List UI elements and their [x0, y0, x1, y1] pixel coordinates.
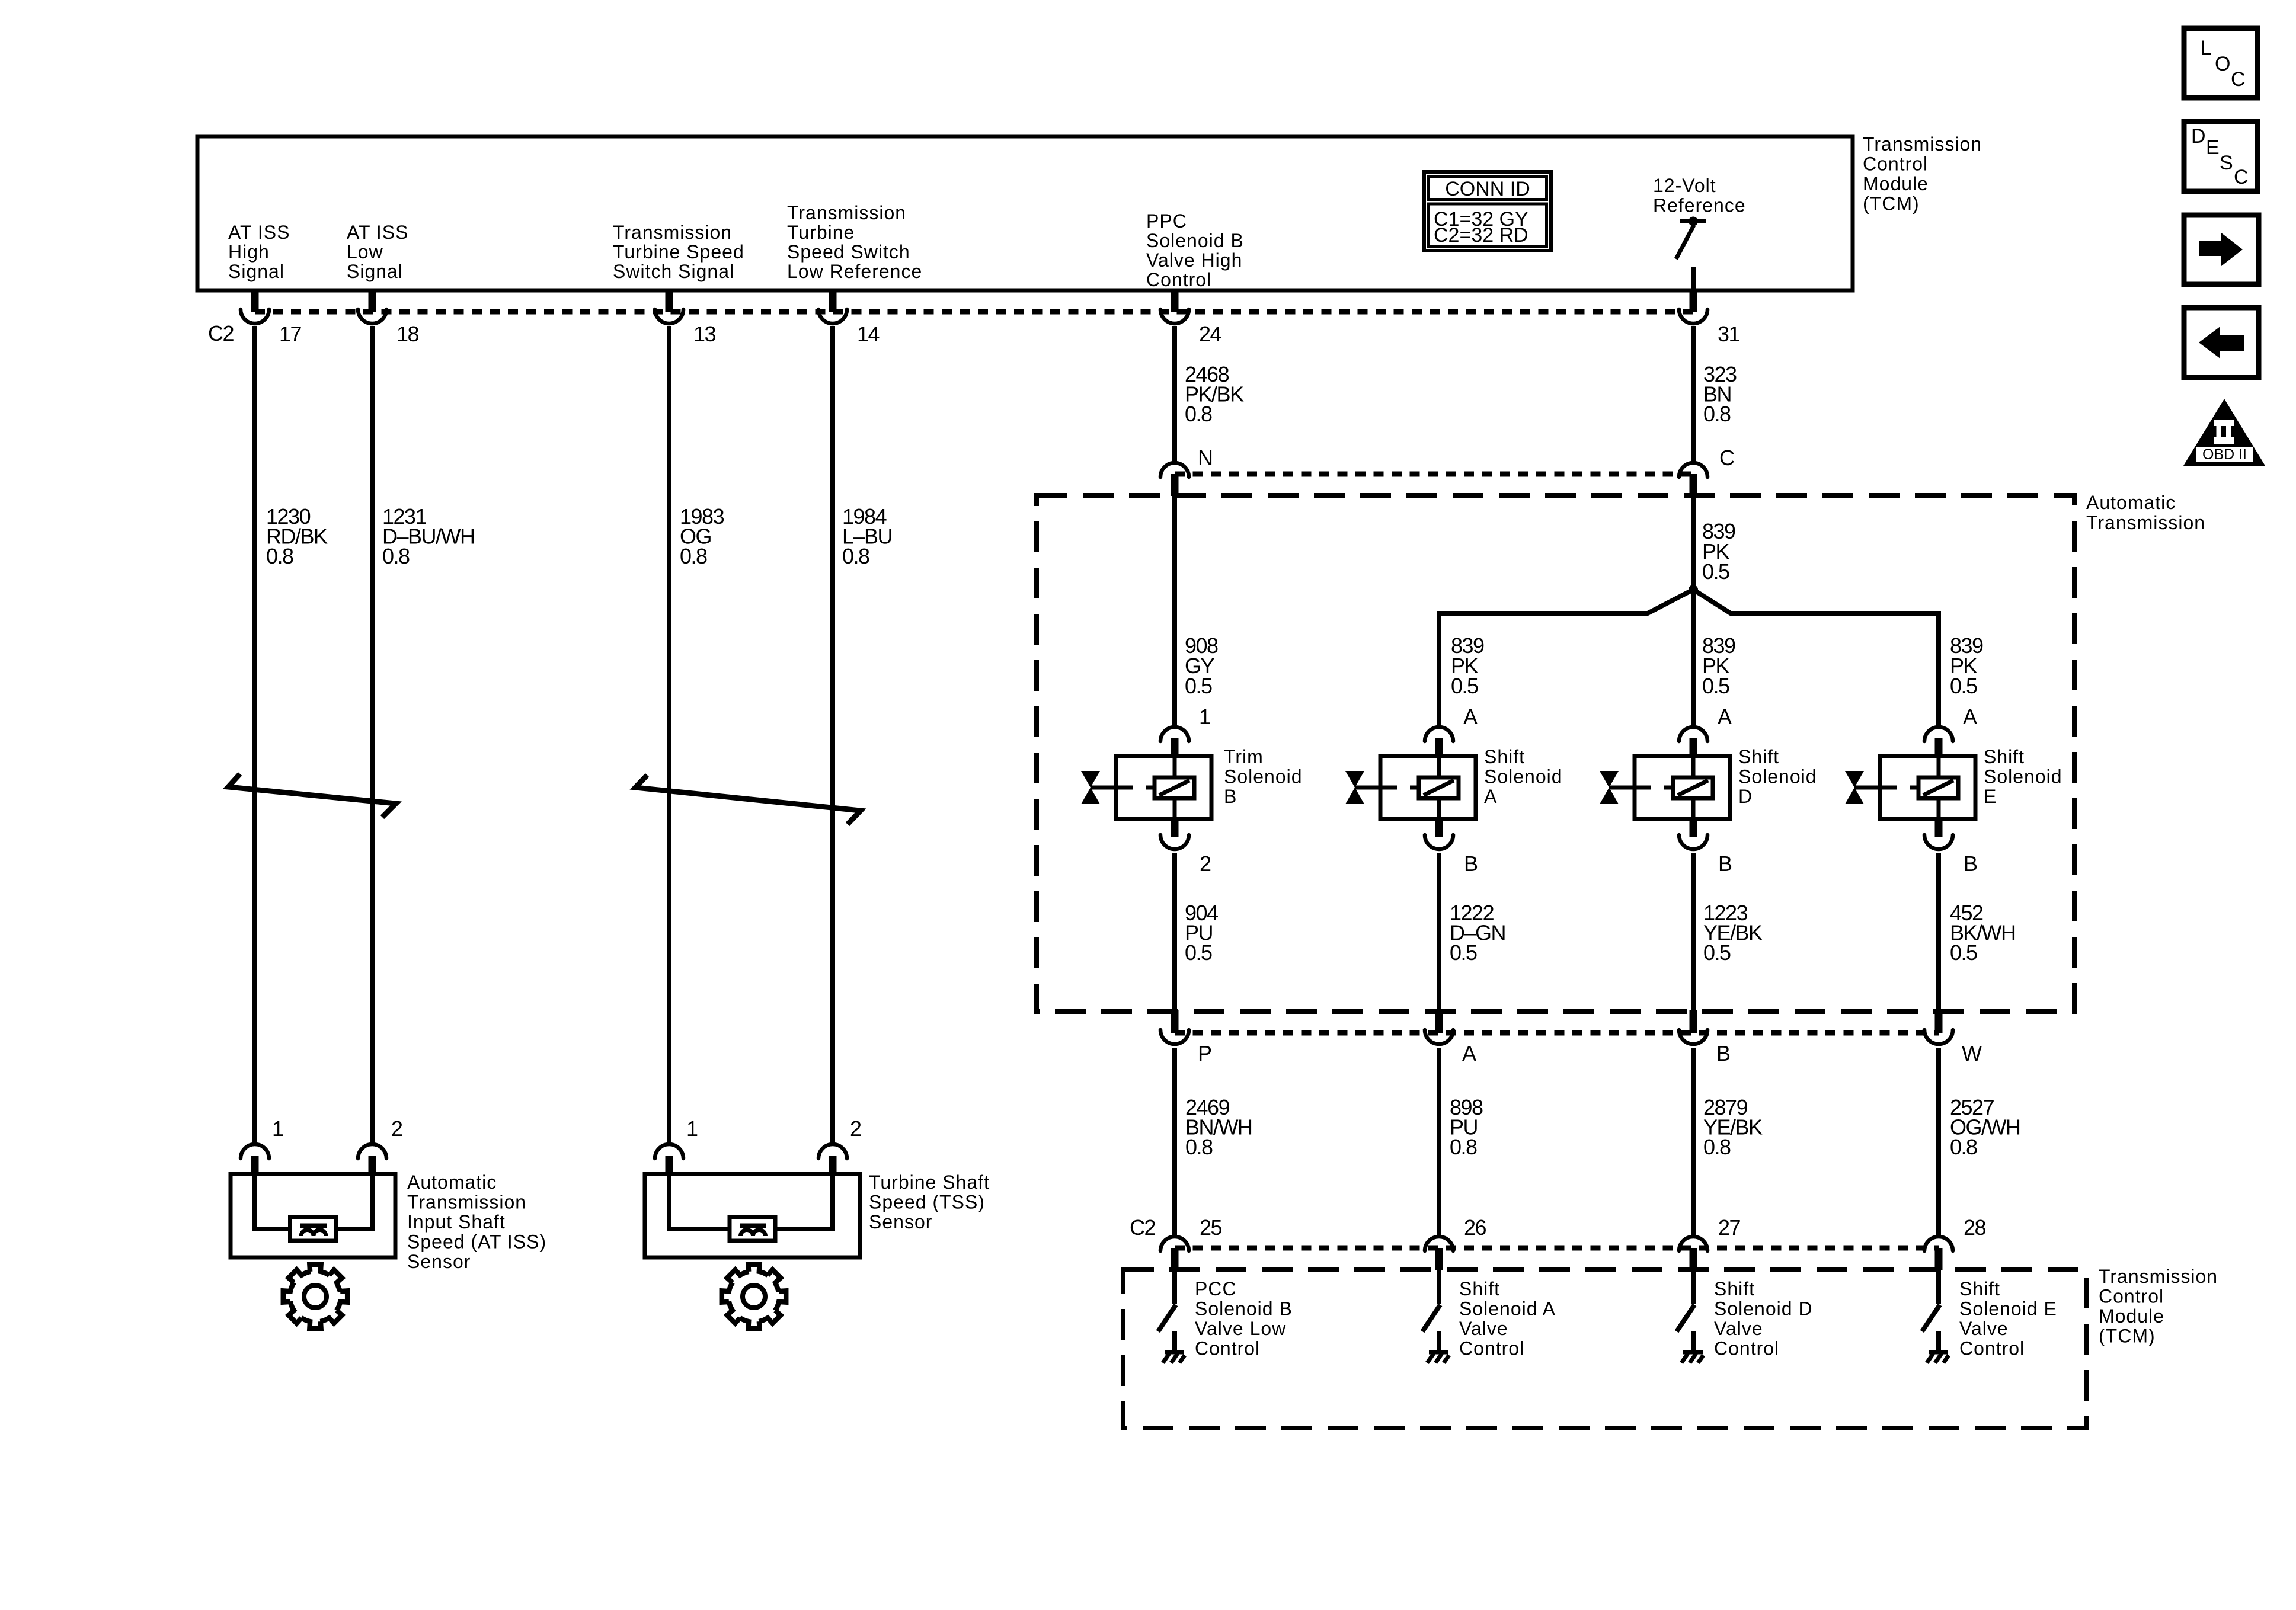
- pin label B A: [1464, 852, 1478, 876]
- pin label P: [1198, 1041, 1211, 1065]
- connector pin 1 solenoid top B: [1160, 727, 1189, 756]
- svg-text:0.5: 0.5: [1702, 559, 1729, 584]
- pin label B D: [1718, 852, 1732, 876]
- pin label A E: [1963, 705, 1977, 729]
- svg-text:Control: Control: [1863, 153, 1928, 175]
- svg-text:C2: C2: [1130, 1215, 1155, 1240]
- connector pin 25 bottom TCM: [1160, 1237, 1189, 1270]
- svg-text:E: E: [2206, 136, 2220, 159]
- ground chassis Solenoid B: [1163, 1331, 1185, 1363]
- connector pin 24 TCM C2: [1160, 290, 1189, 324]
- solenoid feeler lines D: [1609, 786, 1673, 790]
- label Transmission Control Module TCM top right: [1863, 133, 1982, 215]
- svg-text:Automatic: Automatic: [2086, 492, 2176, 513]
- svg-text:Control: Control: [1459, 1338, 1524, 1359]
- solenoid wire internal bottom B: [1173, 798, 1177, 819]
- valve symbol hourglass D: [1600, 771, 1619, 804]
- switch lever Solenoid A low-side driver: [1422, 1305, 1440, 1331]
- TCM bottom dashed box: [1123, 1270, 2086, 1428]
- svg-text:0.5: 0.5: [1185, 940, 1212, 965]
- svg-text:Transmission: Transmission: [613, 222, 732, 243]
- label Transmission Control Module TCM bottom right: [2099, 1266, 2218, 1347]
- svg-text:Module: Module: [2099, 1305, 2164, 1327]
- wire 839 branch center: [1691, 590, 1696, 726]
- solenoid coil element A: [1419, 777, 1459, 798]
- icon forward arrow box: [2184, 215, 2259, 284]
- svg-text:Valve High: Valve High: [1146, 249, 1242, 271]
- wire 839 branch right: [1693, 590, 1939, 726]
- svg-text:18: 18: [396, 322, 419, 346]
- wire internal Solenoid E driver: [1936, 1270, 1941, 1304]
- in-line connector N C dashed line: [1175, 472, 1693, 477]
- label C2 top: [208, 321, 234, 345]
- svg-text:L: L: [2201, 37, 2212, 59]
- solenoid body box A: [1380, 756, 1476, 819]
- svg-text:0.8: 0.8: [680, 544, 707, 568]
- svg-text:PPC: PPC: [1146, 210, 1187, 232]
- svg-text:Solenoid: Solenoid: [1484, 766, 1563, 788]
- solenoid wire internal top E: [1937, 756, 1941, 778]
- label Shift Solenoid A Valve Control: [1459, 1278, 1556, 1359]
- CONN ID table: [1424, 172, 1551, 251]
- label wire 839 PK 0.5 branch D: [1702, 633, 1735, 698]
- label Shift Solenoid E Valve Control: [1959, 1278, 2057, 1359]
- wire 1222 segment: [1437, 853, 1441, 1012]
- connector pin A solenoid top A: [1425, 727, 1453, 756]
- svg-text:Valve Low: Valve Low: [1195, 1318, 1286, 1339]
- svg-text:Solenoid B: Solenoid B: [1195, 1298, 1293, 1320]
- label Automatic Transmission: [2086, 492, 2205, 533]
- pin label C: [1719, 446, 1734, 470]
- svg-text:Transmission: Transmission: [1863, 133, 1982, 155]
- svg-text:27: 27: [1718, 1215, 1741, 1240]
- label wire 839 PK 0.5 branch A: [1451, 633, 1484, 698]
- svg-text:(TCM): (TCM): [1863, 193, 1920, 215]
- svg-text:24: 24: [1199, 322, 1221, 346]
- connector pin 2 sensor: [818, 1144, 847, 1174]
- wire 12-volt reference to box edge: [1691, 267, 1696, 290]
- svg-text:Low Reference: Low Reference: [787, 261, 922, 282]
- label wire 1231 D-BU/WH 0.8: [382, 504, 475, 568]
- svg-text:12-Volt: 12-Volt: [1653, 175, 1716, 196]
- solenoid feeler lines A: [1355, 786, 1419, 790]
- pin label B: [1716, 1041, 1730, 1065]
- svg-text:0.5: 0.5: [1450, 940, 1477, 965]
- gear icon AT ISS reluctor: [283, 1265, 347, 1329]
- pin label 31: [1718, 322, 1740, 346]
- wire 1230 segment: [252, 326, 257, 1142]
- pin label 25: [1200, 1215, 1222, 1240]
- label Shift Solenoid D Valve Control: [1714, 1278, 1813, 1359]
- connector pin 2 solenoid bottom B: [1160, 819, 1189, 849]
- pin label 2 sensor: [391, 1116, 402, 1141]
- connector pin 31 TCM C2: [1679, 290, 1707, 324]
- twisted pair symbol AT ISS wires: [228, 774, 396, 817]
- connector line C2 TCM dashed: [255, 309, 1693, 315]
- svg-text:Control: Control: [2099, 1286, 2164, 1307]
- solenoid body box D: [1635, 756, 1730, 819]
- gear icon TSS reluctor: [722, 1265, 786, 1329]
- pin label 28: [1964, 1215, 1986, 1240]
- connector pin 1 sensor: [241, 1144, 269, 1174]
- svg-text:Solenoid A: Solenoid A: [1459, 1298, 1556, 1320]
- svg-text:0.8: 0.8: [842, 544, 869, 568]
- label wire 904 PU 0.5: [1185, 901, 1218, 965]
- label wire 1984 L-BU 0.8: [842, 504, 892, 568]
- svg-text:A: A: [1718, 705, 1732, 729]
- svg-text:Turbine Shaft: Turbine Shaft: [869, 1172, 990, 1193]
- wire 898 segment: [1437, 1048, 1441, 1235]
- svg-text:2: 2: [391, 1116, 402, 1141]
- svg-text:OBD II: OBD II: [2202, 446, 2247, 463]
- TSS sensor pickup coil element: [730, 1217, 775, 1241]
- connector pin 17 TCM C2: [241, 290, 269, 324]
- switch lever Solenoid D low-side driver: [1677, 1305, 1694, 1331]
- label PPC Solenoid B Valve High Control: [1146, 210, 1244, 290]
- pin label 27: [1718, 1215, 1741, 1240]
- svg-text:Valve: Valve: [1959, 1318, 2009, 1339]
- 12-volt reference switch contact bar: [1680, 219, 1706, 223]
- connector pin 1 sensor: [655, 1144, 683, 1174]
- svg-text:AT ISS: AT ISS: [347, 222, 408, 243]
- svg-text:Solenoid: Solenoid: [1224, 766, 1303, 788]
- label PCC Solenoid B Valve Low Control: [1195, 1278, 1293, 1359]
- svg-text:D: D: [2191, 125, 2206, 148]
- svg-text:Solenoid: Solenoid: [1984, 766, 2062, 788]
- svg-text:S: S: [2220, 152, 2233, 174]
- pin label 13: [693, 322, 716, 346]
- svg-text:(TCM): (TCM): [2099, 1326, 2156, 1347]
- pin label 2 B: [1200, 852, 1211, 876]
- wire 1983 segment: [667, 326, 671, 1142]
- connector pin C: [1679, 463, 1707, 496]
- TCM module box: [197, 136, 1853, 290]
- 12-volt reference switch lever: [1676, 225, 1694, 259]
- ground chassis Solenoid E: [1927, 1331, 1949, 1363]
- label wire 2469 BN/WH 0.8: [1185, 1095, 1252, 1159]
- svg-text:C: C: [2234, 166, 2249, 188]
- wire 323 segment: [1691, 326, 1696, 462]
- svg-text:B: B: [1716, 1041, 1730, 1065]
- pin label 17: [279, 322, 302, 346]
- junction dot 839 splice: [1689, 585, 1698, 594]
- svg-text:Transmission: Transmission: [787, 202, 906, 223]
- valve symbol hourglass A: [1345, 771, 1364, 804]
- svg-text:Solenoid B: Solenoid B: [1146, 230, 1244, 251]
- switch lever Solenoid E low-side driver: [1922, 1305, 1940, 1331]
- TSS sensor internal wires: [669, 1174, 833, 1229]
- connector pin B: [1679, 1010, 1707, 1044]
- svg-text:17: 17: [279, 322, 302, 346]
- svg-text:Valve: Valve: [1459, 1318, 1508, 1339]
- svg-text:Solenoid: Solenoid: [1738, 766, 1817, 788]
- svg-text:AT ISS: AT ISS: [228, 222, 290, 243]
- label wire 1223 YE/BK 0.5: [1703, 901, 1763, 965]
- svg-text:Control: Control: [1146, 269, 1211, 290]
- pin label 18: [396, 322, 419, 346]
- svg-text:0.8: 0.8: [266, 544, 293, 568]
- Automatic Transmission dashed box: [1037, 495, 2074, 1012]
- label wire 452 BK/WH 0.5: [1950, 901, 2016, 965]
- label wire 2468 PK/BK 0.8: [1185, 362, 1244, 426]
- svg-text:Shift: Shift: [1714, 1278, 1755, 1299]
- 12-volt reference junction dot: [1689, 217, 1698, 226]
- twisted pair symbol TSS wires: [635, 775, 861, 824]
- label wire 1230 RD/BK 0.8: [266, 504, 328, 568]
- label wire 1983 OG 0.8: [680, 504, 724, 568]
- svg-text:C2=32 RD: C2=32 RD: [1434, 224, 1528, 247]
- svg-text:26: 26: [1464, 1215, 1486, 1240]
- svg-text:25: 25: [1200, 1215, 1222, 1240]
- svg-text:A: A: [1462, 1041, 1476, 1065]
- solenoid name label E: [1984, 746, 2062, 807]
- svg-text:Speed Switch: Speed Switch: [787, 241, 910, 263]
- svg-text:B: B: [1964, 852, 1977, 876]
- connector pin N: [1160, 463, 1189, 496]
- label AT ISS Low Signal: [347, 222, 408, 282]
- connector pin 26 bottom TCM: [1425, 1237, 1453, 1270]
- pin label W: [1962, 1041, 1982, 1065]
- connector pin B solenoid bottom A: [1425, 819, 1453, 849]
- svg-text:Shift: Shift: [1984, 746, 2025, 767]
- svg-text:2: 2: [1200, 852, 1211, 876]
- pin label 24: [1199, 322, 1221, 346]
- wire internal Solenoid A driver: [1437, 1270, 1441, 1304]
- solenoid body box B: [1116, 756, 1211, 819]
- wire 904 segment: [1172, 853, 1177, 1012]
- connector pin 14 TCM C2: [818, 290, 847, 324]
- wire 839 branch left: [1439, 590, 1693, 726]
- solenoid body box E: [1880, 756, 1975, 819]
- wire internal Solenoid B driver: [1172, 1270, 1177, 1304]
- connector pin B solenoid bottom E: [1924, 819, 1953, 849]
- svg-text:14: 14: [857, 322, 880, 346]
- svg-text:A: A: [1963, 705, 1977, 729]
- solenoid wire internal top D: [1691, 756, 1696, 778]
- solenoid wire internal top B: [1173, 756, 1177, 778]
- svg-text:Sensor: Sensor: [869, 1211, 932, 1233]
- pin label B E: [1964, 852, 1977, 876]
- svg-text:Solenoid D: Solenoid D: [1714, 1298, 1813, 1320]
- svg-text:N: N: [1198, 446, 1213, 470]
- svg-text:Control: Control: [1195, 1338, 1260, 1359]
- svg-text:C: C: [1719, 446, 1734, 470]
- svg-text:Transmission: Transmission: [2086, 512, 2205, 533]
- AT ISS sensor pickup coil element: [290, 1217, 336, 1241]
- wire 2469 segment: [1172, 1048, 1177, 1235]
- svg-text:B: B: [1718, 852, 1732, 876]
- pin label A: [1462, 1041, 1476, 1065]
- label Turbine Shaft Speed Sensor: [869, 1172, 990, 1233]
- connector line C2 TCM bottom dashed: [1175, 1246, 1939, 1251]
- solenoid name label B: [1224, 746, 1303, 807]
- connector pin B solenoid bottom D: [1679, 819, 1707, 849]
- svg-text:28: 28: [1964, 1215, 1986, 1240]
- svg-text:C: C: [2231, 68, 2246, 91]
- svg-text:0.5: 0.5: [1950, 940, 1977, 965]
- pin label 1 sensor: [272, 1116, 283, 1141]
- svg-text:B: B: [1464, 852, 1478, 876]
- in-line connector P A B W dashed line: [1175, 1030, 1939, 1036]
- label wire 2527 OG/WH 0.8: [1950, 1095, 2020, 1159]
- svg-text:B: B: [1224, 786, 1237, 807]
- svg-text:Automatic: Automatic: [407, 1172, 497, 1193]
- svg-text:0.8: 0.8: [1185, 1135, 1213, 1159]
- svg-text:Control: Control: [1959, 1338, 2025, 1359]
- svg-text:Switch Signal: Switch Signal: [613, 261, 734, 282]
- label wire 2879 YE/BK 0.8: [1703, 1095, 1763, 1159]
- solenoid name label D: [1738, 746, 1817, 807]
- connector pin 13 TCM C2: [655, 290, 683, 324]
- pin label A D: [1718, 705, 1732, 729]
- svg-text:0.5: 0.5: [1950, 674, 1977, 698]
- svg-text:E: E: [1984, 786, 1997, 807]
- svg-text:Speed (AT ISS): Speed (AT ISS): [407, 1231, 546, 1253]
- solenoid feeler lines E: [1854, 786, 1918, 790]
- svg-text:31: 31: [1718, 322, 1740, 346]
- svg-text:Transmission: Transmission: [2099, 1266, 2218, 1287]
- label Automatic Transmission Input Shaft Speed Sensor: [407, 1172, 546, 1272]
- svg-text:0.8: 0.8: [1950, 1135, 1977, 1159]
- connector pin 27 bottom TCM: [1679, 1237, 1707, 1270]
- label wire 323 BN 0.8: [1703, 362, 1737, 426]
- svg-text:0.8: 0.8: [1703, 1135, 1731, 1159]
- svg-text:2: 2: [850, 1116, 861, 1141]
- label Transmission Turbine Speed Switch Signal: [613, 222, 744, 282]
- wire internal Solenoid D driver: [1691, 1270, 1696, 1304]
- svg-text:Shift: Shift: [1738, 746, 1779, 767]
- svg-text:1: 1: [1199, 705, 1210, 729]
- svg-text:A: A: [1484, 786, 1497, 807]
- svg-text:1: 1: [272, 1116, 283, 1141]
- svg-text:C2: C2: [208, 321, 234, 345]
- wire 908 segment: [1172, 496, 1177, 726]
- wire 1223 segment: [1691, 853, 1696, 1012]
- connector pin W: [1924, 1010, 1953, 1044]
- wire 1984 segment: [830, 326, 835, 1142]
- svg-text:Trim: Trim: [1224, 746, 1264, 767]
- valve symbol hourglass B: [1081, 771, 1100, 804]
- connector pin 2 sensor: [358, 1144, 386, 1174]
- svg-text:A: A: [1463, 705, 1478, 729]
- AT ISS sensor box: [231, 1174, 395, 1257]
- svg-text:Turbine: Turbine: [787, 222, 855, 243]
- svg-text:0.5: 0.5: [1703, 940, 1731, 965]
- icon LOC box: [2184, 28, 2257, 98]
- svg-text:0.5: 0.5: [1451, 674, 1478, 698]
- solenoid coil element B: [1155, 777, 1194, 798]
- solenoid coil element E: [1918, 777, 1958, 798]
- svg-text:Transmission: Transmission: [407, 1192, 526, 1213]
- svg-text:High: High: [228, 241, 270, 263]
- svg-text:13: 13: [693, 322, 716, 346]
- svg-text:Speed (TSS): Speed (TSS): [869, 1192, 985, 1213]
- svg-text:CONN ID: CONN ID: [1445, 178, 1530, 200]
- svg-text:Reference: Reference: [1653, 195, 1746, 216]
- TSS sensor box: [645, 1174, 860, 1257]
- svg-text:D: D: [1738, 786, 1753, 807]
- connector pin P: [1160, 1010, 1189, 1044]
- svg-text:Turbine Speed: Turbine Speed: [613, 241, 744, 263]
- label wire 908 GY 0.5: [1185, 633, 1218, 698]
- label 12-Volt Reference: [1653, 175, 1746, 216]
- pin label 26: [1464, 1215, 1486, 1240]
- svg-text:Module: Module: [1863, 173, 1929, 194]
- svg-text:0.5: 0.5: [1702, 674, 1729, 698]
- icon OBD II triangle: [2183, 399, 2265, 466]
- svg-text:0.5: 0.5: [1185, 674, 1212, 698]
- wire 1231 segment: [370, 326, 375, 1142]
- wire 2879 segment: [1691, 1048, 1696, 1235]
- connector pin 28 bottom TCM: [1924, 1237, 1953, 1270]
- solenoid feeler lines B: [1091, 786, 1155, 790]
- connector pin A solenoid top D: [1679, 727, 1707, 756]
- icon back arrow box: [2184, 308, 2259, 377]
- wire 2527 segment: [1936, 1048, 1941, 1235]
- ground chassis Solenoid A: [1427, 1331, 1449, 1363]
- pin label 14: [857, 322, 880, 346]
- AT ISS sensor internal wires: [255, 1174, 372, 1229]
- solenoid wire internal top A: [1437, 756, 1441, 778]
- svg-text:Valve: Valve: [1714, 1318, 1763, 1339]
- svg-text:O: O: [2215, 53, 2230, 75]
- svg-text:0.8: 0.8: [382, 544, 410, 568]
- svg-text:Low: Low: [347, 241, 383, 263]
- svg-text:PCC: PCC: [1195, 1278, 1237, 1299]
- label wire 1222 D–GN 0.5: [1450, 901, 1505, 965]
- solenoid wire internal bottom A: [1437, 798, 1441, 819]
- pin label 1 B: [1199, 705, 1210, 729]
- pin label N: [1198, 446, 1213, 470]
- svg-text:0.8: 0.8: [1185, 402, 1212, 426]
- svg-text:Signal: Signal: [228, 261, 284, 282]
- solenoid name label A: [1484, 746, 1563, 807]
- svg-text:Shift: Shift: [1959, 1278, 2000, 1299]
- pin label 2 sensor: [850, 1116, 861, 1141]
- wire 839 trunk segment: [1691, 496, 1696, 590]
- valve symbol hourglass E: [1845, 771, 1864, 804]
- svg-text:Shift: Shift: [1484, 746, 1525, 767]
- connector pin 18 TCM C2: [358, 290, 386, 324]
- connector pin A: [1425, 1010, 1453, 1044]
- wire 452 segment: [1936, 853, 1941, 1012]
- label Transmission Turbine Speed Switch Low Reference: [787, 202, 922, 282]
- solenoid coil element D: [1673, 777, 1713, 798]
- connector pin A solenoid top E: [1924, 727, 1953, 756]
- solenoid wire internal bottom D: [1691, 798, 1696, 819]
- icon DESC box: [2184, 121, 2257, 191]
- svg-text:Signal: Signal: [347, 261, 403, 282]
- svg-text:0.8: 0.8: [1703, 402, 1731, 426]
- svg-text:Control: Control: [1714, 1338, 1779, 1359]
- ground chassis Solenoid D: [1681, 1331, 1703, 1363]
- svg-text:Shift: Shift: [1459, 1278, 1500, 1299]
- svg-text:W: W: [1962, 1041, 1982, 1065]
- svg-text:0.8: 0.8: [1450, 1135, 1477, 1159]
- pin label 1 sensor: [686, 1116, 698, 1141]
- label C2 bottom: [1130, 1215, 1155, 1240]
- switch lever Solenoid B low-side driver: [1158, 1305, 1176, 1331]
- svg-text:P: P: [1198, 1041, 1211, 1065]
- label wire 898 PU 0.8: [1450, 1095, 1483, 1159]
- svg-text:Solenoid E: Solenoid E: [1959, 1298, 2057, 1320]
- wire 2468 segment: [1172, 326, 1177, 462]
- label AT ISS High Signal: [228, 222, 290, 282]
- svg-text:1: 1: [686, 1116, 698, 1141]
- svg-text:Input Shaft: Input Shaft: [407, 1211, 506, 1233]
- svg-text:Sensor: Sensor: [407, 1251, 471, 1272]
- label wire 839 PK 0.5 trunk: [1702, 519, 1735, 584]
